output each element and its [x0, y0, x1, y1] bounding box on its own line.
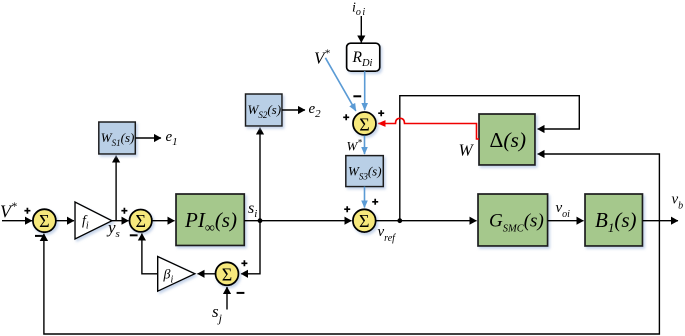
svg-text:Σ: Σ	[135, 211, 145, 231]
svg-text:Σ: Σ	[222, 265, 232, 285]
wire: WS1 to e1	[135, 137, 161, 139]
summing junction S4 (v_ref)	[353, 209, 376, 232]
wire: blue WS3 down into S4	[364, 187, 366, 208]
wire: blue R_Di output down into S5	[364, 71, 366, 110]
gain block beta_i (triangle, fed from right)	[158, 257, 195, 292]
plus sign at S2 left	[121, 208, 127, 214]
summing junction S2	[130, 210, 152, 232]
summing junction S5 (W*)	[353, 112, 376, 135]
svg-text:W: W	[459, 141, 475, 160]
block W_S2(s)	[246, 94, 283, 126]
svg-text:B1(s): B1(s)	[595, 208, 637, 235]
summing junction S1	[33, 209, 56, 232]
block W_S1(s)	[99, 122, 136, 154]
minus sign above S5	[353, 95, 361, 97]
svg-text:Σ: Σ	[39, 211, 49, 231]
block G_SMC(s)	[478, 194, 548, 246]
wire: B1 output to v_b	[643, 220, 679, 222]
block PI_inf(s)	[176, 194, 244, 246]
wire: i_oi down into R_Di	[360, 16, 362, 43]
node: junction at x=400	[397, 218, 402, 223]
wire: S3 to beta triangle tip	[198, 273, 216, 275]
wire: S1 to fi block	[56, 220, 74, 222]
gain block f_i (triangle)	[75, 202, 112, 239]
wire: node up, right, down into Delta right edge (upper input)	[400, 96, 580, 221]
wire: node up to WS2	[259, 128, 261, 221]
wire: G_SMC to B1	[548, 220, 584, 222]
plus sign at S4 top right	[372, 199, 378, 205]
wire: blue S5 down to WS3	[364, 136, 366, 155]
plus sign at S1 left	[24, 208, 30, 214]
wire: main line up to WS1	[115, 156, 117, 221]
wire: PI to summer S4	[244, 220, 351, 222]
block W_S3(s)	[346, 156, 384, 187]
block B_1(s)	[585, 194, 643, 246]
minus sign at S2 bottom	[130, 234, 138, 236]
wire: blue V* diagonal into S5	[325, 58, 355, 111]
plus sign left of S5	[343, 114, 349, 120]
wire: beta output left then up into S2 bottom	[142, 234, 158, 274]
plus sign at S4 left	[344, 206, 350, 212]
wire: fi to summer S2	[112, 220, 129, 222]
wire: node down then left to summer S3	[241, 221, 260, 274]
wire: S2 to PI block	[152, 220, 175, 222]
wire: WS2 to e2	[282, 109, 305, 111]
wire: bottom feedback from tap down, left and up into S1 bottom	[44, 221, 660, 334]
minus sign at S3 bottom right	[237, 292, 245, 294]
plus sign right of S5	[378, 110, 384, 116]
block R_Di (rounded)	[347, 43, 380, 71]
wire: red W disturbance from Delta to summer S5, hop over vertical	[378, 118, 479, 139]
wire: s_j input up into S3	[226, 287, 228, 310]
plus sign at S3 right top	[241, 260, 247, 266]
svg-text:Σ: Σ	[359, 114, 369, 134]
node: junction on main line after PI	[258, 218, 263, 223]
minus sign at S1 bottom	[35, 235, 43, 237]
wire: vertical feedback tap at x=659 up to Delta lower input	[538, 154, 660, 221]
block Delta(s)	[479, 114, 535, 165]
wire: S4 to G_SMC	[376, 220, 477, 222]
summing junction S3	[216, 262, 239, 285]
wire: V* input to summer S1	[2, 220, 32, 222]
svg-text:Δ(s): Δ(s)	[490, 128, 527, 152]
svg-text:Σ: Σ	[359, 211, 369, 231]
